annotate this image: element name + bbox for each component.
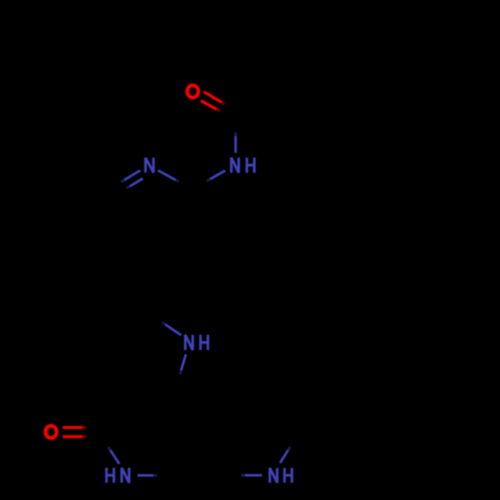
atom N3 middle NH label, letter H <box>201 335 208 350</box>
atom N1 pyridine nitrogen label <box>146 158 154 173</box>
bond N1=C6 pyridine double outer line (blue half) <box>124 170 140 180</box>
atom N5 bottom right NH label, letter H <box>285 468 292 483</box>
atom N3 middle NH label, letter N <box>185 335 192 350</box>
bond C(=O)-N2 vertical (blue half) <box>234 136 237 153</box>
bond N1=C6 pyridine double inner line (blue half) <box>130 179 143 187</box>
atom N4 lactam HN label, letter N <box>122 468 129 483</box>
bond N5-C ring (blue half, diagonal up-right) <box>280 450 288 463</box>
bond N4-C ring (blue half, horizontal right of HN) <box>138 474 154 477</box>
bond N3-C ring (blue half, below middle NH) <box>181 354 186 370</box>
bond C-N3 (blue half, upper-left of middle NH) <box>165 324 181 335</box>
bond C(=O)-N4 (blue half, diagonal) <box>110 450 119 464</box>
atom N4 lactam HN label, letter H <box>107 468 114 483</box>
atom O2 lactam oxygen (bottom left) <box>45 426 56 438</box>
bond O2=C double bond lower line (red half) <box>63 435 83 438</box>
atom O1 carbonyl oxygen (amide, top) <box>187 85 198 97</box>
bond C-N5 (blue half, horizontal left of bottom right NH) <box>245 474 262 477</box>
bond O1=C double bond lower line (red half) <box>201 101 217 110</box>
bond N2-C2pyridine (blue half) <box>210 171 225 180</box>
atom N2 amide NH label, letter N <box>231 158 238 173</box>
atom N2 amide NH label, letter H <box>247 158 254 173</box>
bond O1=C double bond upper line (red half) <box>204 92 222 103</box>
bond N1-C2 pyridine single (blue half) <box>158 170 176 180</box>
bond O2=C double bond upper line (red half) <box>63 426 83 429</box>
atom N5 bottom right NH label, letter N <box>270 468 277 483</box>
